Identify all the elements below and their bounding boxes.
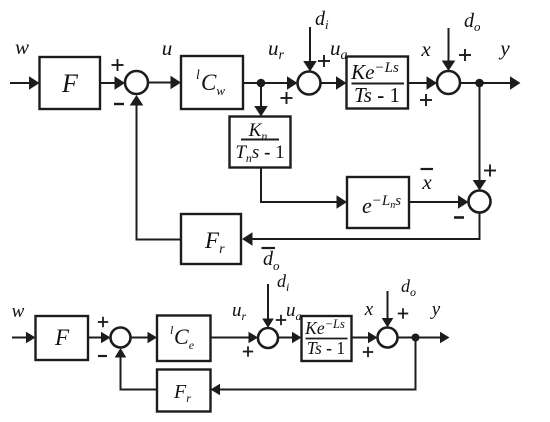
- wire S7 to y2 output: [398, 332, 450, 344]
- plus sign S5 input: [98, 317, 108, 327]
- wire Fr2 to S5 feedback: [115, 348, 157, 390]
- summing junction S5: [111, 328, 131, 348]
- wire Cw to sum S2: [243, 76, 298, 90]
- plus sign S3 top: [459, 49, 471, 61]
- summing junction S6: [258, 328, 278, 348]
- label di: [315, 8, 329, 32]
- summing junction S4: [469, 191, 491, 213]
- wire w2 input: [12, 332, 36, 344]
- svg-text:w: w: [15, 35, 29, 59]
- wire Kn to e-block: [261, 168, 347, 209]
- plus sign S3 input: [420, 94, 432, 106]
- block plant2 Ke-Ls/Ts-1: [302, 316, 352, 361]
- wire F to sum S1: [100, 76, 125, 90]
- svg-text:y: y: [430, 299, 441, 320]
- block Fr2: [157, 370, 211, 412]
- node label x: [420, 37, 431, 61]
- wire S3 to y output: [460, 76, 521, 90]
- wire y feedback down: [473, 83, 487, 191]
- node label y: [498, 36, 510, 60]
- node label xbar: [421, 169, 434, 194]
- plus sign S7 top: [398, 308, 408, 318]
- summing junction S2: [298, 72, 321, 95]
- junction dot ur: [257, 79, 266, 88]
- svg-text:F: F: [61, 69, 79, 98]
- svg-text:x: x: [421, 170, 432, 194]
- plus sign S6 input: [243, 346, 253, 356]
- label do: [464, 10, 481, 34]
- label do2: [401, 276, 416, 299]
- wire S5 to Ce: [131, 332, 157, 344]
- block e-Lns: [347, 177, 409, 228]
- wire S4 output to Fr: [242, 213, 480, 246]
- wire S1 to Cw: [148, 76, 181, 90]
- label di2: [277, 271, 289, 294]
- wire S2 to plant: [321, 76, 347, 90]
- wire di: [303, 27, 317, 72]
- plus sign S2 top: [318, 55, 330, 67]
- wire e-block to S4: [409, 195, 469, 209]
- plus sign S7 input: [363, 347, 373, 357]
- node label x2: [364, 299, 374, 320]
- plus sign S2 input: [281, 92, 293, 104]
- minus sign S1 feedback: [114, 103, 124, 105]
- node label w: [15, 35, 29, 59]
- plus sign S6 top: [276, 315, 286, 325]
- wire F2 to S5: [88, 332, 111, 344]
- wire Ce to S6: [211, 332, 259, 344]
- node label u: [162, 36, 173, 60]
- wire y2 feedback to Fr2: [211, 338, 416, 396]
- svg-text:u: u: [162, 36, 173, 60]
- summing junction S7: [378, 328, 398, 348]
- svg-text:Ts - 1: Ts - 1: [354, 83, 400, 107]
- svg-text:x: x: [420, 37, 431, 61]
- minus sign S5 feedback: [98, 355, 107, 357]
- node label ur: [268, 36, 285, 63]
- minus sign S4 input: [454, 216, 464, 219]
- block Fr top: [181, 214, 241, 264]
- plus sign S1 input: [112, 59, 124, 71]
- svg-text:w: w: [12, 301, 25, 322]
- wire w input: [10, 76, 40, 90]
- label dbar-o: [262, 248, 281, 273]
- block Kn/Tns-1: [230, 117, 291, 168]
- block Cw: [181, 56, 243, 109]
- block plant Ke-Ls/Ts-1: [347, 57, 409, 109]
- plus sign S4 top: [484, 165, 496, 177]
- wire plant2 to S7: [352, 332, 378, 344]
- svg-text:F: F: [54, 325, 70, 350]
- block F2: [36, 316, 89, 360]
- wire ur branch down to Kn: [254, 87, 268, 117]
- junction dot y: [475, 79, 484, 88]
- node label ur2: [232, 300, 247, 323]
- wire plant to sum S3: [408, 76, 437, 90]
- summing junction S1: [125, 71, 148, 94]
- svg-text:Ts - 1: Ts - 1: [307, 338, 345, 358]
- node label y2: [430, 299, 441, 320]
- junction dot y2: [412, 334, 420, 342]
- summing junction S3: [437, 71, 460, 94]
- svg-text:l: l: [196, 67, 200, 82]
- svg-text:x: x: [364, 299, 374, 320]
- wire Fr to S1 feedback: [130, 95, 181, 240]
- node label w2: [12, 301, 25, 322]
- wire S6 to plant2: [278, 332, 302, 344]
- wire do: [442, 28, 456, 71]
- wire di2: [262, 284, 274, 328]
- node label ua: [330, 36, 348, 63]
- block Ce: [157, 316, 211, 362]
- node label ua2: [286, 300, 302, 323]
- block F: [40, 57, 101, 109]
- svg-text:Tns - 1: Tns - 1: [235, 142, 284, 165]
- wire do2: [382, 291, 394, 328]
- svg-text:y: y: [498, 36, 510, 60]
